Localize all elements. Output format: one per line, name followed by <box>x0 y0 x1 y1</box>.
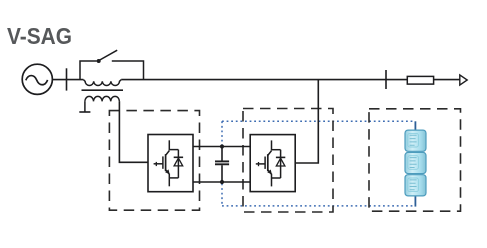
junction dot bottom <box>220 180 224 184</box>
bypass switch branch <box>80 61 97 80</box>
output arrow <box>460 75 467 85</box>
battery cell 3 <box>405 175 426 196</box>
secondary left terminal <box>84 101 86 112</box>
battery link bottom <box>414 195 416 207</box>
terminal tick right <box>385 70 387 89</box>
dc bus bottom rail <box>193 181 250 183</box>
converter box U2 (shunt) <box>250 135 295 192</box>
igbt U2 <box>256 140 285 186</box>
transformer T1 primary winding <box>83 80 121 86</box>
dashed box: shunt converter section <box>243 109 333 213</box>
wire: secondary to series converter <box>119 101 148 162</box>
dc bus top rail <box>193 146 250 148</box>
wire: switch to right drop <box>112 61 144 80</box>
load impedance Z <box>407 76 433 84</box>
dc-link dotted boundary (blue) left edge <box>221 121 223 145</box>
igbt U1 <box>154 140 184 186</box>
junction dot top <box>220 144 224 148</box>
battery link top <box>414 121 416 131</box>
transformer core <box>82 89 124 91</box>
switch blade <box>99 50 117 60</box>
battery cell 2 <box>405 152 426 173</box>
switch contact dot <box>97 59 101 63</box>
transformer T1 secondary winding <box>85 96 120 101</box>
grid wire to load <box>121 79 407 81</box>
ac source G1 <box>22 64 52 94</box>
wire: source to transformer <box>53 79 84 81</box>
dc-link dotted boundary (blue) bottom edge <box>222 205 414 207</box>
dc-link dotted boundary (blue) top edge <box>222 120 414 122</box>
dashed box: series converter section <box>109 111 199 211</box>
dc-link capacitor C1 <box>221 147 223 161</box>
wire: load to output arrow <box>434 79 460 81</box>
svg-text:V-SAG: V-SAG <box>7 23 72 49</box>
terminal tick left <box>66 68 68 90</box>
wire: shunt converter to grid tap <box>295 80 318 163</box>
dashed box: energy storage section <box>369 109 461 211</box>
battery cell 1 <box>405 130 426 151</box>
converter box U1 (series) <box>148 135 193 192</box>
